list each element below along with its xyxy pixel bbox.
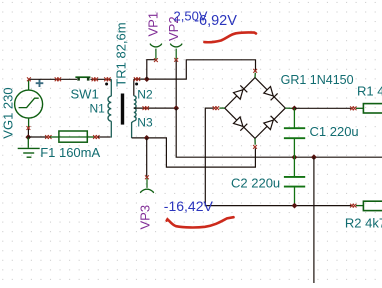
node junction C2 bottom (292, 203, 298, 209)
resistor R2 (356, 201, 382, 210)
wire SW1 to TR1 (90, 79, 111, 96)
wire mid rail down off-page (313, 157, 315, 283)
label C1 220u (310, 124, 359, 139)
bridge left pin (219, 107, 224, 109)
bridge top pin (254, 73, 256, 78)
resistor R1 (356, 104, 382, 113)
diode D3 (L to B) (234, 117, 248, 131)
label VP3 (138, 205, 153, 230)
transformer secondary winding N3 (132, 108, 137, 138)
svg-text:N1: N1 (90, 101, 106, 115)
transformer secondary winding N2 (134, 79, 136, 108)
value -6,92V (194, 13, 237, 29)
terminal x source bottom (27, 126, 31, 130)
transformer core (121, 94, 124, 125)
red underline annotation bottom (167, 217, 234, 227)
svg-text:SW1: SW1 (71, 87, 99, 102)
value -16,42V (164, 198, 214, 214)
terminal x SW1 right (92, 77, 98, 81)
terminal x VP2 (174, 58, 178, 62)
label C2 220u (231, 176, 280, 191)
svg-text:TR1 82,6m: TR1 82,6m (114, 22, 129, 86)
label F1 160mA (40, 145, 100, 160)
terminal x R2 (350, 204, 356, 208)
terminal x bridge top (253, 69, 257, 73)
bridge diamond GR1 (225, 78, 286, 139)
wire VP3 branch (146, 138, 148, 177)
svg-text:F1 160mA: F1 160mA (40, 145, 100, 160)
terminal x bridge left (213, 106, 219, 110)
polarity dot primary (105, 83, 108, 86)
terminal x VP3 (145, 175, 149, 179)
wire N2 top to bridge top (134, 60, 256, 79)
label GR1 1N4150 (281, 73, 354, 87)
node junction C1 top (292, 106, 298, 112)
svg-text:N3: N3 (137, 115, 153, 129)
diode D2 (T to R) (264, 87, 278, 101)
svg-text:R2 4k7: R2 4k7 (345, 215, 382, 230)
label N3 (137, 115, 153, 129)
terminal x bridge bottom (253, 145, 257, 149)
terminal x TR1 primary top (104, 77, 110, 81)
svg-text:-16,42V: -16,42V (164, 198, 214, 214)
label R2 4k7 (345, 215, 382, 230)
diode D4 (B to R) (264, 116, 278, 130)
switch SW1 (75, 77, 90, 80)
label N2 (137, 87, 153, 101)
label VP1 (146, 12, 161, 37)
wire bridge right to R1 (294, 107, 351, 109)
label VP2 (166, 16, 181, 41)
wire top rail (29, 78, 77, 80)
wire bridge left to bottom rail (205, 108, 351, 206)
transformer TR1 primary winding N1 (108, 96, 111, 121)
node junction mid rail down-wire (311, 154, 317, 160)
diode D1 (L to T) (234, 85, 248, 99)
voltage pin VP3 (140, 178, 153, 193)
capacitor C2 (284, 157, 305, 205)
voltage source VG1 (15, 79, 43, 127)
capacitor C1 (284, 108, 305, 157)
voltage pin VP2 (170, 44, 182, 59)
terminal x VP1 (154, 58, 158, 62)
value 2,50V (174, 8, 208, 23)
label SW1 (71, 87, 99, 102)
node junction center tap (173, 105, 179, 111)
wire center tap to mid rail (176, 108, 382, 157)
terminal x SW1 left (55, 77, 61, 81)
red underline annotation top (204, 32, 256, 42)
bridge right pin (285, 107, 294, 109)
svg-text:VP1: VP1 (146, 12, 161, 37)
svg-text:VP3: VP3 (138, 205, 153, 230)
node junction C1 bottom (292, 154, 298, 160)
label N1 (90, 101, 106, 115)
terminal x center tap (143, 106, 149, 110)
polarity dot secondary N2 (135, 83, 138, 86)
wire VP1 branch (147, 60, 156, 79)
label TR1 82,6m (114, 22, 129, 86)
label VG1 230 (1, 87, 16, 138)
wire N3 bottom to bridge bottom (132, 138, 256, 167)
wire source bottom (27, 129, 29, 137)
terminal x N2 top (134, 77, 140, 81)
wire VP2 to center tap (175, 61, 177, 109)
terminal x R1 (350, 106, 356, 110)
terminal x fuse right (93, 135, 99, 139)
node junction VP3 branch (144, 135, 150, 141)
plus sign of VG1 (36, 79, 44, 87)
node junction VP1 branch (144, 76, 150, 82)
fuse F1 (50, 131, 95, 142)
svg-text:N2: N2 (137, 87, 153, 101)
terminal x fuse left (45, 135, 51, 139)
wire center tap (134, 107, 176, 109)
svg-text:R1 4k7: R1 4k7 (357, 84, 382, 99)
wire fuse to TR1 primary bottom (98, 121, 111, 137)
label R1 4k7 (357, 84, 382, 99)
voltage pin VP1 (150, 44, 162, 59)
svg-text:C1 220u: C1 220u (310, 124, 359, 139)
bridge bottom pin (254, 138, 256, 144)
wire bottom rail to fuse (28, 136, 47, 138)
node junction source-ground-fuse (25, 134, 31, 140)
svg-text:GR1 1N4150: GR1 1N4150 (281, 73, 354, 87)
svg-text:-6,92V: -6,92V (194, 13, 237, 29)
terminal x source top (27, 77, 31, 81)
svg-text:VG1 230: VG1 230 (1, 87, 16, 138)
svg-text:C2 220u: C2 220u (231, 176, 280, 191)
ground (18, 137, 40, 157)
